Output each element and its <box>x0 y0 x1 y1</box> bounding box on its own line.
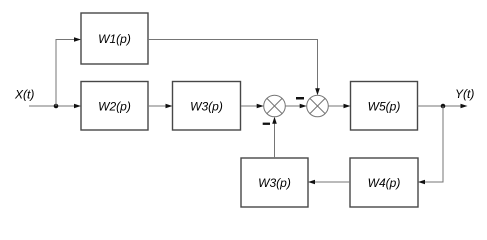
wire W2 to W3 <box>148 104 173 109</box>
block W3 (forward path) <box>173 82 241 131</box>
minus sign at S1 <box>263 123 270 125</box>
wire S2 to W5 <box>328 104 350 109</box>
block W2 <box>81 82 148 131</box>
node input junction <box>54 104 59 109</box>
minus sign at S2 <box>296 97 304 100</box>
block W1 <box>81 13 148 64</box>
wire W3 feedback up to S1 bottom <box>272 117 277 158</box>
summing junction S1 <box>264 95 286 117</box>
svg-text:W1(p): W1(p) <box>98 32 131 46</box>
wire input to W2 <box>29 104 81 109</box>
wire feedback down to W4 <box>418 106 443 184</box>
wire W4 to W3 feedback <box>308 180 350 185</box>
block W3 (feedback path) <box>241 158 308 207</box>
block W5 <box>351 82 418 131</box>
summing junction S2 <box>307 95 329 117</box>
wire S1 to S2 <box>285 104 306 109</box>
wire W5 to output <box>418 104 468 109</box>
svg-text:W2(p): W2(p) <box>98 100 131 114</box>
block W4 <box>350 158 418 207</box>
svg-text:W3(p): W3(p) <box>190 100 223 114</box>
svg-text:W4(p): W4(p) <box>368 176 401 190</box>
node output junction <box>441 104 446 109</box>
wire W3 to S1 <box>241 104 264 109</box>
svg-text:Y(t): Y(t) <box>455 87 474 101</box>
wire branch up to W1 <box>56 37 81 106</box>
svg-text:W5(p): W5(p) <box>368 100 401 114</box>
svg-text:W3(p): W3(p) <box>258 176 291 190</box>
svg-text:X(t): X(t) <box>14 88 34 102</box>
wire W1 output to S2 top <box>148 40 320 96</box>
